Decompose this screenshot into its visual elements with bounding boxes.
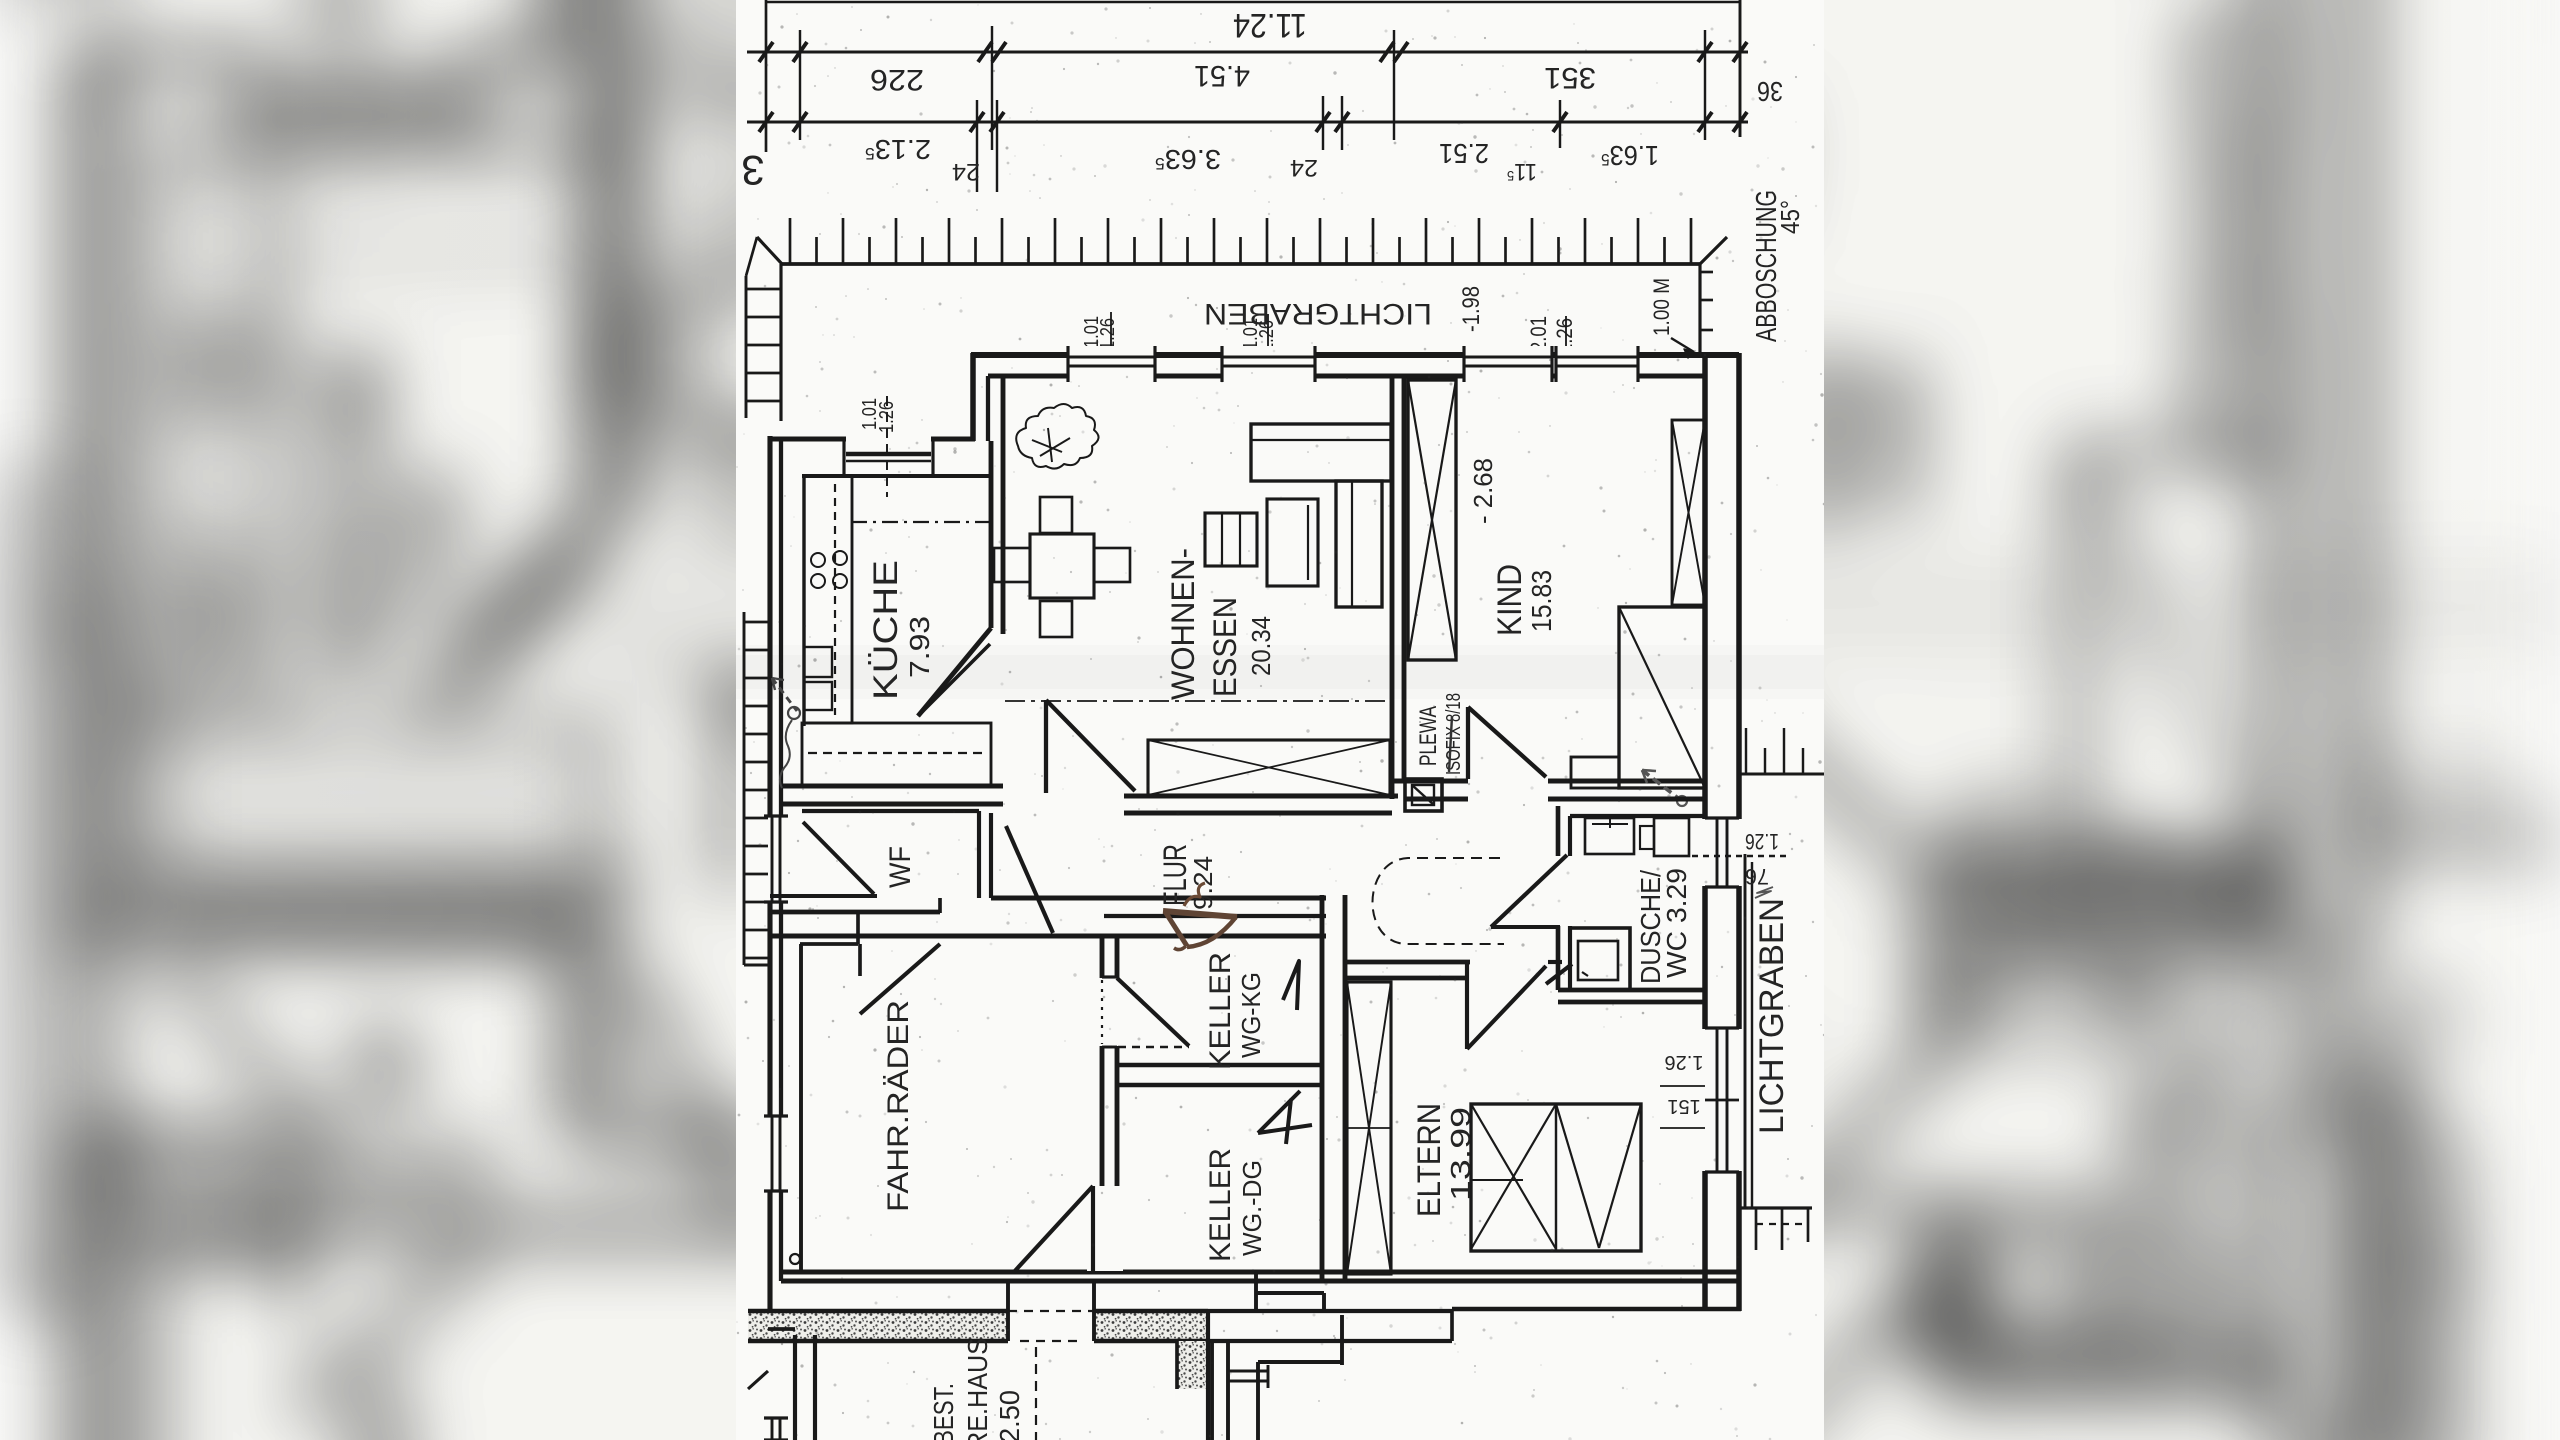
svg-text:151: 151 (1667, 1095, 1700, 1117)
svg-text:WC 3.29: WC 3.29 (1661, 868, 1692, 978)
svg-text:36: 36 (1757, 76, 1783, 107)
svg-text:351: 351 (1544, 61, 1596, 94)
svg-text:BEST.: BEST. (928, 1383, 959, 1440)
svg-text:KÜCHE: KÜCHE (867, 560, 905, 700)
svg-text:1.26: 1.26 (1097, 318, 1119, 350)
svg-text:RE.HAUS: RE.HAUS (962, 1338, 993, 1440)
svg-text:KELLER: KELLER (1204, 1148, 1237, 1262)
svg-text:-2.50: -2.50 (994, 1390, 1025, 1440)
svg-text:15.83: 15.83 (1526, 570, 1557, 632)
svg-text:-1.98: -1.98 (1458, 286, 1485, 332)
svg-text:LICHTGRABEN: LICHTGRABEN (1204, 297, 1432, 330)
svg-text:WG-KG: WG-KG (1236, 972, 1266, 1058)
svg-text:1.635: 1.635 (1601, 140, 1659, 171)
svg-text:WG.-DG: WG.-DG (1237, 1160, 1267, 1256)
svg-text:ELTERN: ELTERN (1411, 1103, 1447, 1217)
svg-text:24: 24 (1290, 154, 1318, 181)
svg-text:3.635: 3.635 (1155, 144, 1221, 175)
svg-text:2.135: 2.135 (865, 134, 931, 165)
svg-text:11.24: 11.24 (1233, 6, 1307, 44)
svg-text:WF: WF (884, 846, 917, 888)
svg-text:24: 24 (952, 158, 980, 185)
svg-text:3: 3 (741, 147, 764, 194)
svg-text:PLEWA: PLEWA (1415, 706, 1442, 766)
svg-text:- 2.68: - 2.68 (1468, 458, 1498, 524)
svg-text:KELLER: KELLER (1204, 952, 1237, 1070)
svg-text:1.26: 1.26 (1745, 829, 1779, 854)
svg-text:7.93: 7.93 (904, 616, 935, 678)
svg-text:1.00 M: 1.00 M (1649, 278, 1674, 336)
svg-text:2.51: 2.51 (1439, 138, 1489, 169)
svg-text:FAHR.RÄDER: FAHR.RÄDER (882, 1000, 915, 1212)
svg-text:ESSEN: ESSEN (1207, 597, 1243, 697)
svg-text:KIND: KIND (1491, 564, 1529, 636)
svg-text:4.51: 4.51 (1194, 59, 1250, 92)
svg-text:45°: 45° (1775, 200, 1805, 234)
svg-text:1.26: 1.26 (1665, 1051, 1704, 1073)
svg-text:76: 76 (1745, 864, 1769, 889)
svg-text:LICHTGRABEN: LICHTGRABEN (1753, 898, 1791, 1134)
svg-text:ISOFIX 8/18: ISOFIX 8/18 (1443, 693, 1465, 775)
svg-text:226: 226 (870, 63, 924, 96)
svg-text:13.99: 13.99 (1445, 1107, 1476, 1201)
svg-text:20.34: 20.34 (1246, 616, 1276, 676)
svg-text:WOHNEN-: WOHNEN- (1165, 548, 1201, 700)
